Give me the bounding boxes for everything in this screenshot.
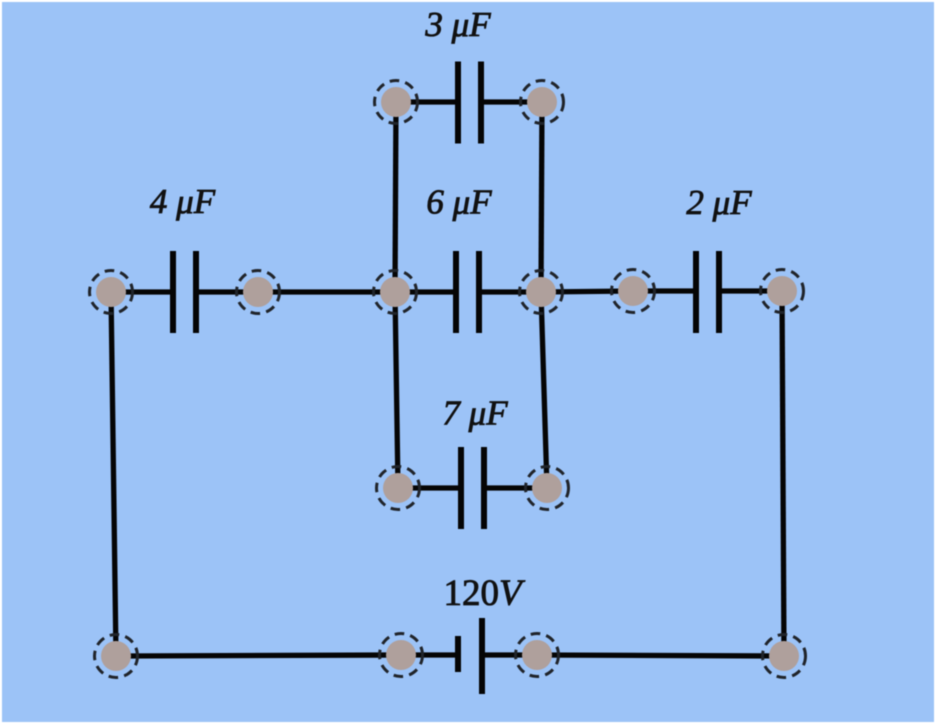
node N12 dashed ring (380, 634, 423, 677)
node N2 (243, 277, 273, 307)
wire N3 to C3 left plate (395, 289, 456, 294)
node N6 (767, 276, 797, 306)
node N10 dashed ring (526, 467, 569, 510)
node N11 dashed ring (95, 635, 138, 678)
node N8 dashed ring (521, 81, 564, 124)
node N13 (522, 640, 552, 670)
node N5 dashed ring (612, 270, 655, 313)
capacitor C1 3uF plates (455, 62, 461, 144)
wire N1 down to N11 (111, 292, 116, 656)
node N14 dashed ring (763, 635, 806, 678)
node N5 (618, 276, 648, 306)
node N9 (383, 473, 413, 503)
wire N11 to N12 (116, 655, 401, 656)
node N7 dashed ring (375, 81, 418, 124)
node N1 dashed ring (90, 271, 133, 314)
wire N7 to C1 left plate (396, 99, 458, 104)
node N8 (527, 87, 557, 117)
wire C4 right plate to N6 (719, 288, 782, 293)
battery V1 short plate (455, 636, 461, 672)
svg-text:2 μF: 2 μF (686, 183, 752, 222)
wire battery long plate to N13 (482, 652, 537, 657)
capacitor C3 6uF plates (453, 251, 459, 333)
node N10 (532, 473, 562, 503)
wire N3 down to N9 (395, 292, 398, 488)
wire N1 to C2 left plate (111, 289, 173, 294)
node N7 (381, 87, 411, 117)
node N9 dashed ring (377, 467, 420, 510)
svg-text:6 μF: 6 μF (426, 183, 492, 222)
wire N4 to N5 (541, 291, 633, 292)
wire N2 to N3 (258, 289, 395, 294)
wire N12 to battery short plate (401, 652, 458, 657)
wire C5 right plate to N10 (484, 485, 547, 490)
battery V1 long plate (479, 618, 485, 694)
svg-text:120V: 120V (443, 573, 526, 614)
capacitor C2 4uF plates (170, 251, 176, 333)
node N2 dashed ring (237, 271, 280, 314)
node N13 dashed ring (516, 634, 559, 677)
wire N7 down to N3 (395, 102, 396, 292)
capacitor C4 2uF plates (693, 251, 699, 333)
wire N4 down to N10 (541, 292, 547, 488)
node N11 (101, 641, 131, 671)
node N6 dashed ring (761, 270, 804, 313)
wire N8 down to N4 (541, 102, 542, 292)
wire N6 down to N14 (782, 291, 784, 656)
node N1 (96, 277, 126, 307)
wire N13 to N14 (537, 655, 784, 656)
svg-text:7 μF: 7 μF (442, 394, 508, 433)
wire C2 right plate to N2 (196, 289, 258, 294)
wire N5 to C4 left plate (633, 288, 696, 293)
wire N9 to C5 left plate (398, 485, 461, 490)
node N12 (386, 640, 416, 670)
node N3 dashed ring (374, 271, 417, 314)
node N3 (380, 277, 410, 307)
node N4 (526, 277, 556, 307)
svg-text:3 μF: 3 μF (424, 5, 491, 44)
node N14 (769, 641, 799, 671)
svg-text:4 μF: 4 μF (150, 182, 216, 221)
node N4 dashed ring (520, 271, 563, 314)
capacitor C5 7uF plates (458, 447, 464, 529)
wire C3 right plate to N4 (479, 289, 541, 294)
wire C1 right plate to N8 (481, 99, 542, 104)
